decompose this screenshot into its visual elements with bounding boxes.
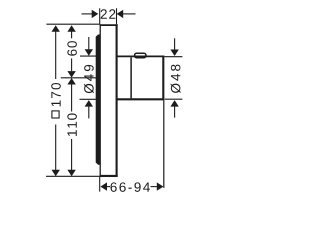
label diameter 49	[84, 65, 94, 93]
dim 22 right extension line	[116, 8, 118, 24]
wall plate bottom edge	[100, 175, 118, 177]
arrow 170 top	[52, 25, 60, 32]
handle button ridge	[135, 53, 146, 58]
arrow 48 top	[170, 50, 178, 57]
label 110	[67, 113, 77, 136]
handle top edge	[118, 55, 165, 57]
arrow 48 bottom	[170, 100, 178, 107]
dim 170 line lower	[55, 125, 57, 171]
dim 48 top tail	[174, 38, 176, 49]
wall plate top edge	[100, 24, 118, 26]
dim 60 line lower	[71, 58, 73, 71]
wall plate left edge	[99, 24, 101, 177]
arrow 170 bottom	[52, 170, 60, 177]
dim 22 right tail	[123, 13, 136, 15]
handle collar line	[130, 57, 132, 98]
arrow 60 top	[67, 25, 75, 32]
arrow 49 bottom	[85, 100, 93, 107]
arrow 22 left	[92, 10, 99, 18]
dim 110 line lower	[71, 139, 73, 170]
label diameter 48	[171, 65, 181, 93]
arrow 22 right	[117, 10, 124, 18]
arrow 60 bottom (bowtie upper)	[67, 71, 75, 78]
centerline	[61, 77, 98, 79]
dim 48 bottom extension	[165, 98, 183, 100]
dim 66-94 line right	[151, 186, 158, 188]
label 22	[101, 9, 116, 18]
label 66-94	[110, 182, 149, 192]
arrow 110 top (bowtie lower)	[67, 78, 75, 85]
dim 49 bottom tail	[88, 106, 90, 118]
dim 22 left extension line	[99, 8, 101, 24]
dim 22 left tail	[82, 13, 93, 15]
dim 49 top tail	[88, 37, 90, 49]
handle bottom edge	[118, 98, 165, 100]
dim 110 line upper	[71, 85, 73, 112]
dim 49 top extension	[80, 55, 97, 57]
dim 48 top extension	[164, 56, 182, 58]
dim 66-94 left extension	[99, 177, 101, 192]
handle right edge	[162, 56, 164, 101]
label 170	[51, 83, 61, 106]
label 170 square symbol	[52, 111, 59, 118]
in-wall valve body bar	[96, 35, 101, 165]
dim 66-94 right extension	[163, 100, 165, 187]
arrow 66-94 right	[157, 182, 164, 190]
top extension line	[46, 23, 100, 25]
label 60	[67, 41, 77, 56]
dim 49 bottom extension	[80, 98, 99, 100]
dim 48 bottom tail	[174, 106, 176, 117]
dim 170 line upper	[55, 31, 57, 79]
dim 66-94 line left	[107, 186, 110, 188]
bottom baseline extension	[46, 175, 100, 177]
wall plate right edge	[116, 24, 118, 177]
arrow 66-94 left	[100, 182, 107, 190]
arrow 110 bottom	[67, 170, 75, 177]
arrow 49 top	[85, 49, 93, 56]
dim 60 line upper	[71, 31, 73, 38]
